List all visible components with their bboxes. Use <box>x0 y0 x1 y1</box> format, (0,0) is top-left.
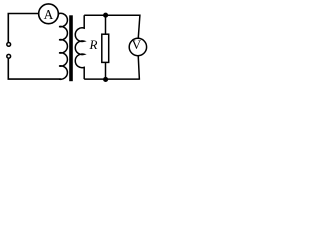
svg-text:R: R <box>89 37 98 52</box>
svg-text:A: A <box>44 7 54 22</box>
svg-text:V: V <box>132 37 142 52</box>
